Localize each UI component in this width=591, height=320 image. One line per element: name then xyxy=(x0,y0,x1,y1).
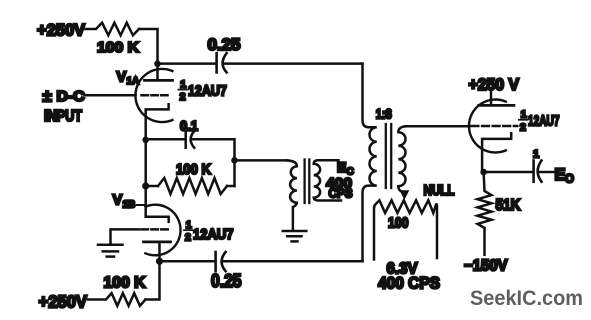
svg-text:2: 2 xyxy=(520,122,526,134)
node: cathode to R3 junction xyxy=(142,182,149,189)
node: V1A cathode / C2 junction xyxy=(142,137,149,144)
svg-text:1: 1 xyxy=(533,149,539,161)
transformer T2 primary winding xyxy=(363,64,377,262)
svg-text:INPUT: INPUT xyxy=(44,108,82,125)
transformer T1 secondary winding xyxy=(314,160,341,200)
wire cathode node to C3 xyxy=(484,171,532,174)
svg-text:SeekIC.com: SeekIC.com xyxy=(470,286,583,310)
ground (V1B grid) xyxy=(98,245,123,257)
wire plate node to C1 xyxy=(158,62,216,65)
transformer T2 core xyxy=(386,124,391,188)
NULL adjust arrow (T2 secondary to R4 wiper) xyxy=(400,190,410,200)
wire C3 to Eo xyxy=(540,171,554,174)
node: V1A plate junction xyxy=(154,61,161,68)
svg-text:1: 1 xyxy=(186,219,192,231)
wire D-C input to V1A grid xyxy=(85,94,136,97)
label 1/2 (V1A) xyxy=(178,79,187,104)
wire C2 to grid-drive node xyxy=(193,139,235,186)
svg-text:100 K: 100 K xyxy=(176,161,211,178)
resistor R1 100K (V1A plate load) xyxy=(86,23,140,36)
svg-text:−150V: −150V xyxy=(464,258,508,275)
svg-text:2: 2 xyxy=(185,232,191,244)
transformer T1 primary winding xyxy=(287,160,297,229)
wire V1B plate node to C4 xyxy=(160,260,215,263)
svg-text:100 K: 100 K xyxy=(104,275,147,292)
wire R1 to V1A plate node xyxy=(139,29,158,64)
resistor R3 100K (feedback) xyxy=(146,178,235,194)
svg-text:CPS: CPS xyxy=(329,186,353,201)
svg-text:V: V xyxy=(113,193,123,209)
triode V1A envelope xyxy=(135,69,172,122)
svg-text:1A: 1A xyxy=(127,76,140,87)
svg-text:400 CPS: 400 CPS xyxy=(378,275,440,293)
V2 cathode xyxy=(482,133,511,172)
wire drive node to T1 primary xyxy=(235,159,288,162)
label V1B xyxy=(113,193,136,211)
capacitor C4 0.25 xyxy=(216,252,226,271)
V1B plate xyxy=(144,242,171,261)
capacitor C3 1 xyxy=(534,161,542,182)
node: V2 cathode junction xyxy=(480,169,487,176)
svg-text:0.1: 0.1 xyxy=(180,119,198,134)
label V1A xyxy=(117,70,140,88)
svg-text:51K: 51K xyxy=(496,197,522,214)
svg-text:NULL: NULL xyxy=(424,183,455,199)
wire C4 to T2 primary bottom xyxy=(224,260,363,263)
capacitor C2 0.1 xyxy=(186,131,195,148)
svg-text:V: V xyxy=(117,70,127,86)
svg-text:12AU7: 12AU7 xyxy=(188,82,227,99)
triode V2 envelope xyxy=(469,99,506,152)
wire C1 to T2 primary top xyxy=(225,62,363,65)
svg-text:+250V: +250V xyxy=(39,292,88,312)
svg-text:1: 1 xyxy=(521,109,527,121)
wire cathode node to C2 xyxy=(146,138,185,141)
pointer line V1B label to tube xyxy=(137,204,145,206)
wire V1B grid to ground xyxy=(111,229,140,243)
node: drive junction to T1 xyxy=(231,157,238,164)
label 1/2 (V1B) xyxy=(184,219,192,244)
transformer T2 secondary winding xyxy=(398,126,407,192)
wire +250V to V2 plate xyxy=(490,91,493,105)
V1A grid (dashed) xyxy=(142,94,168,97)
svg-text:1B: 1B xyxy=(123,200,136,211)
svg-text:1:8: 1:8 xyxy=(376,107,392,122)
svg-text:D-C: D-C xyxy=(57,89,86,105)
svg-text:±: ± xyxy=(43,87,52,106)
svg-text:0.25: 0.25 xyxy=(208,36,241,54)
label Eo output xyxy=(555,166,575,186)
label 1/2 (V2) xyxy=(519,109,527,134)
node: V1B plate junction xyxy=(156,258,163,265)
ground (T1 primary) xyxy=(283,231,307,241)
V1A cathode xyxy=(146,104,169,140)
svg-text:+250V: +250V xyxy=(37,21,86,40)
V1B grid (dashed) xyxy=(142,228,170,231)
resistor R2 100K (V1B plate load) xyxy=(88,261,160,306)
label Ec xyxy=(337,159,354,178)
transformer T1 core xyxy=(305,160,310,204)
V1A plate xyxy=(145,64,173,81)
svg-text:2: 2 xyxy=(180,91,186,103)
capacitor C1 0.25 xyxy=(217,53,227,72)
svg-text:+250 V: +250 V xyxy=(469,76,520,94)
svg-text:1: 1 xyxy=(180,79,186,91)
V1B cathode xyxy=(146,217,169,222)
svg-text:12AU7: 12AU7 xyxy=(528,114,560,130)
wire cathode chain V1A to V1B xyxy=(144,140,147,217)
svg-text:0.25: 0.25 xyxy=(211,271,242,291)
potentiometer R4 100 xyxy=(374,200,437,259)
triode V1B envelope xyxy=(145,205,180,256)
resistor R5 51K xyxy=(478,172,492,255)
svg-text:100: 100 xyxy=(388,216,409,232)
svg-text:E: E xyxy=(337,159,346,175)
wire T2 secondary to V2 grid xyxy=(405,125,469,128)
svg-text:100 K: 100 K xyxy=(97,39,139,56)
V2 grid (dashed) xyxy=(472,125,518,128)
svg-text:E: E xyxy=(555,166,566,184)
V2 plate xyxy=(479,104,514,107)
svg-text:O: O xyxy=(565,174,574,186)
svg-text:12AU7: 12AU7 xyxy=(193,226,234,243)
